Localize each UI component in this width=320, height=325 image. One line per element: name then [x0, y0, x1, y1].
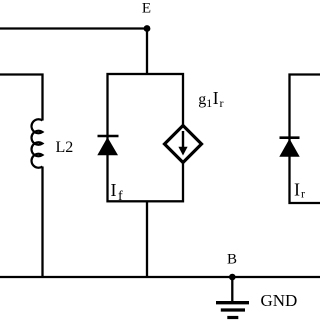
svg-text:L2: L2: [56, 139, 74, 156]
svg-text:GND: GND: [261, 291, 298, 310]
svg-text:B: B: [227, 252, 237, 268]
svg-text:E: E: [142, 1, 151, 17]
